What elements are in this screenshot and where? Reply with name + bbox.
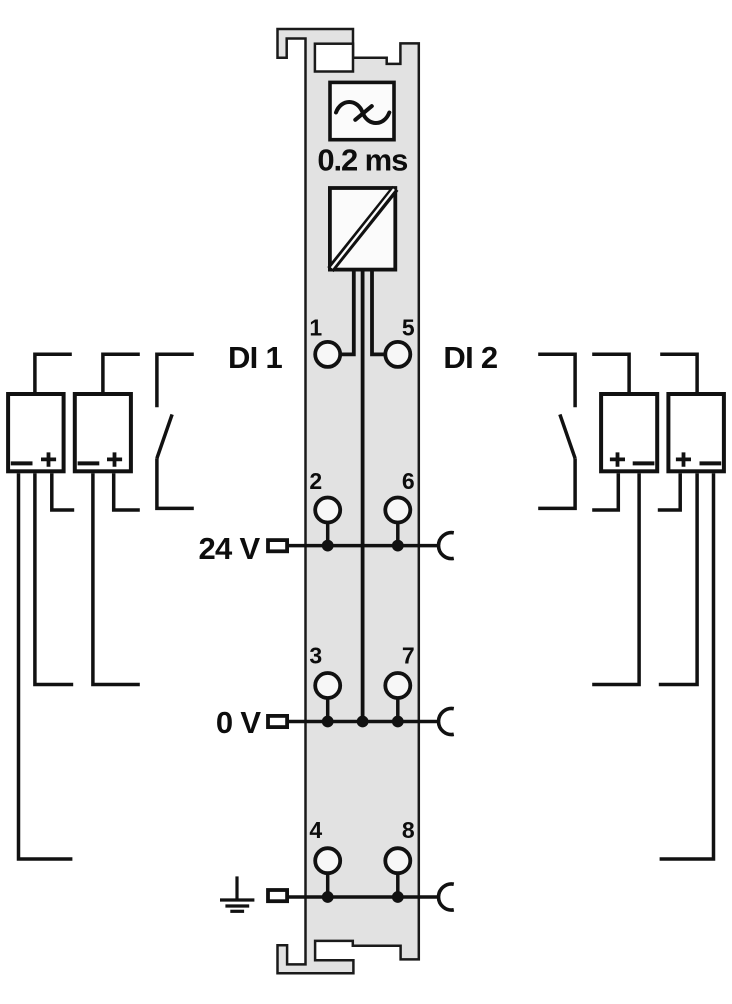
module body K-bus outline (278, 29, 419, 973)
B3 minus label (633, 461, 655, 465)
junction dot pin4 (322, 891, 334, 903)
center wire to 0V bus (361, 271, 365, 722)
pin 6 contact (385, 498, 410, 523)
wire from isolation box to pin 5 (372, 271, 385, 354)
svg-text:DI 1: DI 1 (228, 340, 283, 375)
pin 3 contact (315, 673, 340, 698)
junction dot pin8 (392, 891, 404, 903)
ground symbol (220, 876, 254, 911)
svg-text:DI 2: DI 2 (443, 340, 497, 375)
B3 plus wire to 24V (592, 473, 618, 510)
right supply box B3 (601, 394, 657, 471)
wire from isolation box to pin 1 (340, 271, 354, 354)
right supply box B4 (668, 394, 724, 471)
24V bus (289, 544, 439, 548)
B1 minus label (11, 461, 33, 465)
svg-text:0 V: 0 V (216, 705, 261, 740)
B1 plus label (41, 452, 56, 466)
0V bus (289, 720, 439, 724)
24V jumper contact arc (439, 533, 454, 559)
svg-text:0.2 ms: 0.2 ms (317, 143, 407, 178)
isolation double diagonal (330, 188, 395, 269)
right switch S2 bottom lead (538, 458, 575, 508)
top latch cutout (315, 44, 353, 72)
left supply box B2 (75, 394, 131, 471)
isolation box U2 (330, 188, 395, 270)
left switch S1 blade (157, 414, 172, 458)
svg-text:8: 8 (402, 817, 415, 843)
B4 top wire to DI2 (660, 354, 697, 392)
B2 plus wire to 24V (114, 473, 140, 510)
0V jumper contact arc (439, 709, 454, 735)
B2 minus label (78, 461, 100, 465)
pin 2 contact (315, 498, 340, 523)
filter sine wave icon (336, 102, 389, 123)
pin 7 stub (396, 698, 400, 722)
right switch S2 top lead (538, 354, 575, 407)
earth terminal box (268, 890, 287, 901)
B1 top wire to DI1 (35, 354, 72, 392)
svg-text:3: 3 (309, 642, 322, 668)
B4 plus wire to 24V (658, 473, 680, 510)
B4 minus label (700, 461, 722, 465)
junction dot pin7 (392, 716, 404, 728)
filter box U1 (330, 82, 394, 139)
svg-text:5: 5 (402, 314, 415, 340)
svg-text:4: 4 (309, 817, 322, 843)
pin 2 stub (326, 523, 330, 546)
B3 plus label (610, 452, 625, 466)
junction dot pin3 (322, 716, 334, 728)
B1 plus wire to 24V (52, 473, 74, 510)
svg-text:2: 2 (309, 468, 322, 494)
svg-text:6: 6 (402, 468, 415, 494)
pin 6 stub (396, 523, 400, 546)
left supply box B1 (8, 394, 64, 471)
B2 minus wire to 0V (93, 473, 140, 684)
24V terminal box (268, 540, 287, 551)
B2 plus label (107, 452, 122, 466)
pin 5 contact (385, 342, 410, 367)
junction dot center (357, 716, 369, 728)
right switch S2 blade (560, 414, 575, 458)
pin 3 stub (326, 698, 330, 722)
pin 1 contact (315, 342, 340, 367)
earth bus (289, 895, 439, 899)
filter slash (355, 106, 372, 120)
left switch S1 bottom lead (157, 458, 194, 508)
B2 top wire to DI1 (103, 354, 140, 392)
pin 7 contact (385, 673, 410, 698)
B1 minus wire to earth (19, 473, 73, 859)
B3 top wire to DI2 (592, 354, 629, 392)
svg-text:24 V: 24 V (199, 531, 261, 566)
B3 minus wire to 0V (592, 473, 639, 684)
left switch S1 top lead (157, 354, 194, 407)
svg-text:1: 1 (309, 314, 322, 340)
pin 8 contact (385, 848, 410, 873)
pin 8 stub (396, 873, 400, 897)
junction dot pin6 (392, 540, 404, 552)
B4 plus label (676, 452, 691, 466)
earth jumper contact arc (439, 884, 454, 910)
junction dot pin2 (322, 540, 334, 552)
B4 middle wire to 0V (659, 473, 697, 684)
pin 4 stub (326, 873, 330, 897)
0V terminal box (268, 716, 287, 727)
svg-text:7: 7 (402, 642, 415, 668)
pin 4 contact (315, 848, 340, 873)
B4 minus wire to earth (660, 473, 714, 859)
B1 middle wire to 0V (35, 473, 73, 684)
